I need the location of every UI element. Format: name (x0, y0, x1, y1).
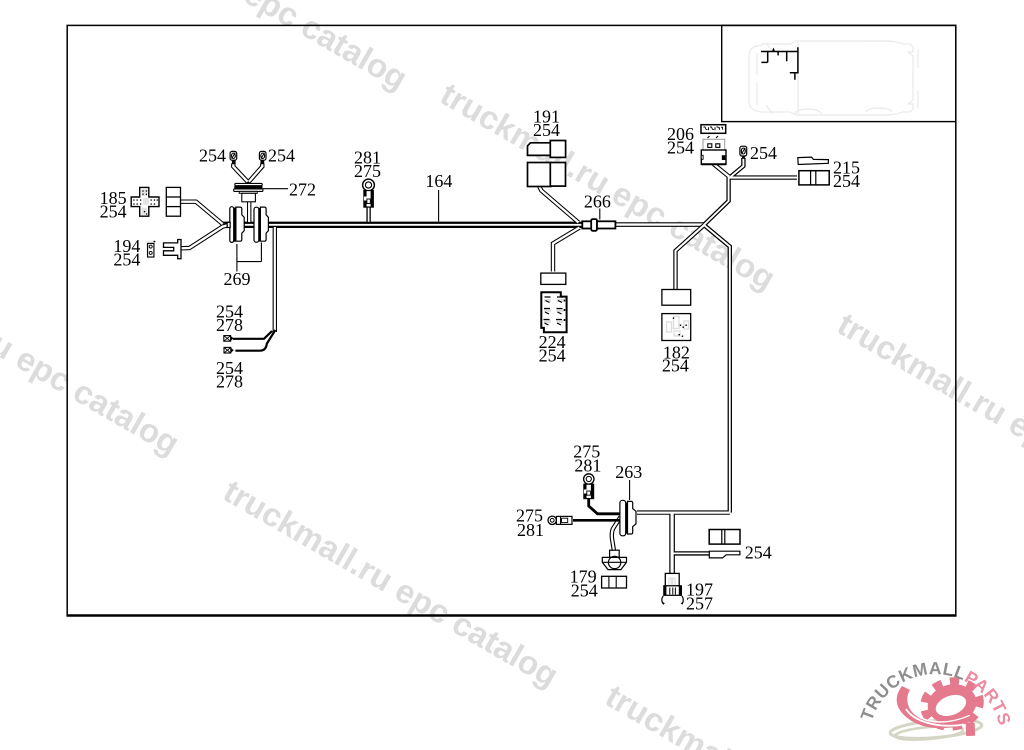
svg-text:254: 254 (833, 171, 860, 191)
svg-text:275: 275 (354, 161, 381, 181)
svg-text:278: 278 (216, 371, 243, 391)
svg-text:254: 254 (533, 120, 560, 140)
svg-text:257: 257 (686, 594, 713, 614)
svg-text:truckmall.ru epc catalog: truckmall.ru epc catalog (832, 305, 1024, 527)
svg-text:truckmall.ru epc catalog: truckmall.ru epc catalog (218, 472, 565, 694)
svg-text:truckmall.ru epc catalog: truckmall.ru epc catalog (0, 240, 186, 462)
svg-text:164: 164 (425, 171, 452, 191)
svg-text:266: 266 (584, 192, 611, 212)
svg-text:254: 254 (571, 581, 598, 601)
svg-text:269: 269 (224, 269, 251, 289)
svg-text:254: 254 (268, 146, 295, 166)
svg-text:254: 254 (667, 138, 694, 158)
svg-text:278: 278 (216, 315, 243, 335)
svg-text:254: 254 (745, 543, 772, 563)
svg-text:254: 254 (100, 201, 127, 221)
svg-text:272: 272 (289, 180, 316, 200)
svg-text:254: 254 (750, 143, 777, 163)
svg-text:truckmall.ru epc catalog: truckmall.ru epc catalog (67, 0, 414, 97)
svg-text:281: 281 (517, 520, 544, 540)
svg-text:254: 254 (662, 356, 689, 376)
svg-text:254: 254 (113, 250, 140, 270)
svg-text:263: 263 (615, 462, 642, 482)
svg-text:281: 281 (574, 456, 601, 476)
svg-text:254: 254 (539, 346, 566, 366)
svg-text:254: 254 (199, 146, 226, 166)
